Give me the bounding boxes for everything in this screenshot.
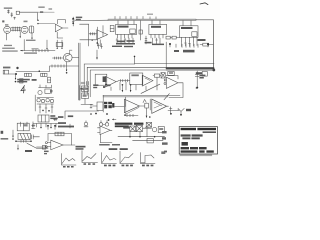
title row 2 text: [203, 131, 216, 133]
component pot 2: [99, 121, 108, 127]
terminal left: [90, 104, 92, 107]
IC U4: [149, 24, 167, 34]
node D: [39, 70, 41, 72]
node riser top: [134, 56, 136, 58]
wire A4 out: [139, 105, 145, 107]
component X4 crossed box: [130, 126, 136, 132]
resistor R20: [153, 74, 161, 77]
component tone box: [42, 146, 46, 150]
component L1: [16, 11, 19, 14]
wire arrow down 2: [17, 145, 18, 151]
label tiny text above bus: [147, 14, 153, 15]
wire riser mid row2: [149, 99, 151, 110]
wire A6 out: [178, 83, 183, 98]
wire Q3 emitter arrow: [66, 62, 68, 74]
pins row1 down: [111, 78, 157, 91]
capacitor C2: [40, 11, 43, 12]
audio op-amp A6: [164, 76, 178, 89]
resistor R5 hatch: [52, 65, 64, 67]
title row 3 text: [181, 134, 203, 136]
wire branch: [80, 24, 89, 46]
label T1 text: [24, 21, 28, 23]
resistor R8 base: [52, 57, 63, 59]
pins U4: [151, 21, 163, 39]
IC A2 box row1: [130, 73, 143, 85]
transformer T1: [11, 27, 21, 31]
wire top feed: [19, 12, 37, 20]
op-amp A7: [45, 140, 63, 150]
label small mark: [49, 8, 53, 10]
label 4 stage text: [24, 52, 37, 53]
wire U1 under: [57, 32, 63, 38]
label FM aerial text block: [2, 45, 18, 52]
wire A6 bottom: [164, 94, 183, 100]
wire divider down: [81, 98, 93, 104]
feedback loop wire: [48, 134, 72, 146]
label U3 text: [118, 26, 129, 28]
node blob: [16, 67, 18, 69]
wire emitter Q2 arrow: [20, 32, 21, 39]
label MHz text rows: [58, 115, 74, 127]
wire arrow left: [12, 130, 14, 140]
oscillator top wires: [39, 85, 52, 88]
node U2 out: [91, 39, 93, 41]
speaker pins row: [170, 44, 208, 48]
title row 4 text: [182, 137, 199, 139]
node far dot: [196, 87, 197, 88]
divider box A: [82, 86, 89, 91]
label scale text: [109, 148, 128, 150]
capacitor C5: [20, 79, 23, 83]
wire faint right: [37, 11, 54, 13]
wire bend 1: [84, 64, 134, 95]
IC U3: [116, 24, 137, 34]
node U2 gnd: [96, 42, 98, 44]
component C10: [139, 21, 142, 41]
annotation pen mark 4: [21, 86, 26, 93]
transformer T2: [29, 26, 34, 33]
component C20: [145, 103, 149, 108]
graph axes right: [82, 151, 98, 165]
components under U5: [182, 41, 198, 47]
op-amp U2: [97, 30, 108, 40]
resistor R17: [200, 43, 213, 46]
label Q1 text: [5, 24, 8, 25]
component X5 crossed box: [136, 125, 142, 131]
node A: [37, 20, 38, 21]
label TAPE text: [3, 67, 10, 69]
capacitor C30: [170, 107, 173, 115]
label values under U3: [116, 40, 135, 44]
label +9V text: [26, 40, 36, 41]
wire 4-stage line: [20, 49, 55, 51]
wire T2 down arrow: [31, 33, 32, 40]
capacitor C6: [48, 77, 51, 83]
components under U4: [145, 36, 160, 44]
wire bottom rail: [15, 140, 32, 142]
label left text: [1, 138, 9, 140]
label C22 text: [199, 75, 205, 79]
wire bend 2: [87, 67, 214, 95]
graph axes left: [62, 154, 77, 168]
title R70 text: [182, 142, 188, 146]
connector J1: [3, 70, 8, 74]
wire terminals top: [47, 124, 70, 129]
op-amp U1: [55, 24, 68, 32]
graph G1: [102, 153, 117, 167]
wire down arrow tape: [15, 75, 17, 83]
resistor R1: [11, 13, 13, 17]
op-amp A4 row2: [124, 99, 139, 114]
label 4x text: [123, 127, 129, 129]
wire mid left: [16, 70, 39, 72]
title row 1 text: [181, 128, 216, 130]
label text right: [196, 72, 202, 74]
resistor R6: [24, 73, 31, 76]
oscillator mid cluster: [37, 98, 54, 104]
resistor R7: [41, 73, 47, 76]
label volume text: [76, 146, 86, 150]
wire tone line: [37, 146, 49, 148]
oscillator upper row: [38, 89, 53, 95]
node C: [15, 73, 17, 75]
component C22 right: [195, 71, 199, 89]
wire branch 3: [102, 26, 104, 37]
wire to stage: [39, 66, 78, 71]
label FIG text top left: [38, 6, 44, 8]
transistor Q3: [64, 53, 73, 62]
label gain text: [32, 48, 39, 49]
label pin labels: [174, 50, 195, 53]
component box M2: [92, 102, 103, 111]
components under U3: [116, 38, 133, 44]
IC U5: [180, 26, 199, 38]
component X3 crossed box: [146, 123, 151, 128]
label text left edge: [2, 20, 4, 22]
wire stub row2 left: [112, 118, 116, 120]
component L100 box: [168, 72, 174, 76]
transistor Q10: [178, 108, 185, 115]
wire arrow into amp: [46, 40, 47, 50]
divider boxes bracket: [79, 85, 81, 100]
corner blob: [212, 69, 215, 72]
transistor Q2: [21, 26, 28, 33]
label ANT text: [4, 7, 12, 8]
title row 7 text: [181, 150, 214, 152]
node dot mid: [103, 86, 105, 88]
wire mains rail 2: [133, 139, 163, 143]
component pot 1: [84, 121, 88, 127]
wire pair up: [21, 122, 28, 126]
title faint bottom band: [180, 155, 213, 157]
wire U2 bottom rail: [80, 39, 97, 41]
wire mid horizontal: [65, 111, 99, 119]
wire arrow down pair 1: [122, 84, 124, 92]
transformer dark cluster: [104, 102, 114, 109]
wire U1 feedback: [58, 20, 66, 24]
wire top bus double: [108, 19, 213, 20]
resistor chain row1: [118, 79, 130, 81]
wire arrow down A4: [146, 108, 148, 118]
wire U2 down: [99, 40, 101, 46]
label TDA text dark: [115, 123, 144, 128]
wire A7 out: [63, 144, 75, 146]
title block border: [179, 127, 217, 154]
op-amp A8 power: [98, 126, 113, 135]
marks below A7: [44, 151, 49, 155]
pin ticks above bus: [115, 16, 156, 19]
wire riser mid: [135, 56, 215, 64]
label values text row: [17, 79, 36, 83]
node row1 left: [83, 89, 85, 91]
title row 6 text: [181, 147, 207, 149]
capacitor C4 pair: [56, 40, 63, 49]
transistor Q1: [4, 26, 11, 33]
wire right border: [212, 20, 214, 69]
relay box B hatched: [18, 133, 30, 139]
resistor R15: [166, 36, 172, 39]
wire top rail: [75, 19, 109, 21]
resistor hatch small: [81, 81, 88, 85]
label TONE text: [25, 150, 32, 152]
capacitor C1: [14, 17, 16, 19]
wire supply vertical: [23, 40, 25, 51]
node spk left: [169, 43, 171, 45]
wire small right: [168, 109, 179, 111]
component chain V1: [72, 17, 74, 26]
wire main vertical bus: [79, 43, 80, 100]
oscillator bracket: [34, 95, 36, 111]
wire Q3 collector: [70, 50, 72, 54]
wire fuse link: [143, 127, 152, 128]
wire bus tap: [125, 97, 127, 107]
annotation mark top right: [200, 3, 208, 5]
pins U3: [117, 21, 134, 39]
lamp LP1: [152, 127, 156, 131]
bottom left connector mark: [1, 131, 4, 134]
capacitor cluster top of bus: [98, 44, 103, 49]
oscillator bottom rail: [33, 122, 60, 129]
label T3 text: [50, 115, 57, 119]
component small: [54, 119, 58, 121]
component box M1: [95, 74, 107, 85]
transformer T3 box: [38, 115, 49, 122]
component X1: [110, 25, 114, 31]
graph G2: [120, 151, 134, 166]
label 27 text: [186, 109, 191, 111]
op-amp A5 row2: [152, 99, 167, 113]
resistor feedback box: [55, 132, 64, 136]
resistor R16: [172, 36, 180, 39]
resistor feedback A4: [125, 114, 139, 116]
wire mains rail 1: [118, 128, 165, 137]
label top right bits: [93, 84, 110, 88]
component ant stub: [7, 10, 9, 14]
divider box B: [82, 93, 89, 98]
enclosure left edge: [165, 42, 167, 68]
label tiny text row1 left: [81, 88, 89, 90]
annotation fragments left of title: [162, 131, 168, 152]
annotation check mark: [143, 99, 146, 102]
wire cluster out: [115, 106, 125, 108]
annotation diagonal line: [141, 84, 160, 93]
wire TP arrow: [96, 50, 98, 60]
label tiny right text: [161, 151, 165, 154]
op-amp A1 row1: [105, 76, 118, 87]
component X2 crossed box: [161, 73, 165, 78]
label text row small: [99, 144, 120, 146]
component plug box: [158, 127, 164, 133]
wire Q1 emitter: [5, 33, 7, 40]
component ticks right: [32, 125, 35, 129]
op-amp A3 row1: [142, 75, 153, 86]
pins U5: [182, 21, 198, 42]
relay box A: [17, 123, 29, 131]
wire Q3 to bus: [72, 57, 78, 59]
enclosure bottom thick: [166, 68, 214, 70]
wire bend 3: [90, 70, 214, 97]
oscillator lower parts: [39, 104, 53, 113]
label U5 text: [181, 27, 193, 29]
wire diagonal to tone: [27, 143, 48, 148]
wire A5 out: [167, 105, 169, 107]
label U4 text: [151, 26, 161, 28]
graph G3: [141, 153, 155, 167]
resistor R10 hatch: [89, 33, 96, 35]
wire branch 2: [97, 27, 99, 46]
label IC1 text: [76, 17, 82, 20]
wire arrow down pair 2: [130, 84, 132, 92]
wire A8 down: [101, 135, 113, 143]
label values under U4: [112, 42, 164, 47]
wire coupling: [38, 23, 55, 25]
node spk right: [207, 43, 209, 45]
component box right: [202, 72, 207, 77]
label 4k7 text: [198, 39, 206, 41]
node dots row2: [90, 113, 150, 121]
wire tape out: [9, 73, 16, 75]
capacitor ticks: [31, 135, 39, 139]
wire row2 bus left corner: [102, 95, 104, 112]
wire row2 bus double: [103, 95, 180, 97]
node B: [37, 23, 38, 24]
